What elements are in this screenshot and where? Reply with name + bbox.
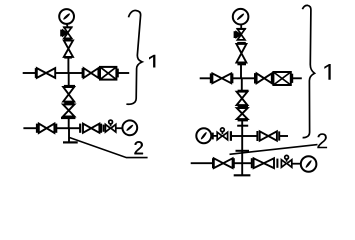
leader line to label 2 (left) — [69, 138, 147, 158]
label 2 (left assembly) — [134, 141, 142, 154]
three-way cock VK3 (below PG3) — [235, 29, 246, 40]
three-way cock VK5 (run 3, handle up) — [281, 155, 291, 167]
shut-off valve V11 (vertical hourglass) — [237, 92, 248, 105]
node: run 1 junction with riser — [68, 72, 82, 74]
shut-off valve V12 (vertical hourglass) — [237, 108, 248, 119]
brace bracket (right assembly, item 1) — [302, 5, 314, 137]
pipe: stub from PG4 to cock VK4 — [211, 133, 217, 140]
tap bar below run 2 junction (item 2, right assembly) — [236, 150, 250, 152]
flange bar right of valve V14 — [233, 158, 235, 168]
shut-off valve V4 (vertical hourglass) — [63, 87, 74, 102]
flange bar right of valve V9 — [231, 73, 233, 83]
flange bar right of valve V15 — [276, 159, 278, 168]
flange bar left of valve V3 — [82, 68, 84, 78]
pipe: run 1 left stub (right assembly) — [200, 77, 210, 79]
instrument box B1 (crossed square) — [100, 67, 116, 80]
node: run 3 junction — [242, 162, 251, 164]
pressure gauge PG1 (left assembly, top) — [59, 9, 74, 28]
pressure gauge PG2 (run 2 right end) — [122, 120, 137, 135]
pipe: riser run 2 to run 3 — [241, 136, 243, 163]
pipe: stub to gauge PG5 — [292, 163, 301, 165]
flange bar left of valve V2 — [35, 68, 37, 78]
pipe: run 1 right stub (right assembly) — [292, 77, 302, 79]
three-way cock VK1 (below PG1) — [61, 27, 72, 38]
brace bracket (left assembly, item 1) — [126, 10, 142, 104]
shut-off valve V6 (run 2 left) — [39, 124, 55, 133]
pipe: run 1 left stub — [23, 72, 36, 74]
pipe: riser down to run 2 (right assembly) — [241, 120, 243, 136]
pipe: run 2 left stub — [23, 127, 36, 129]
shut-off valve V10 (run 1 right) — [257, 73, 272, 83]
flange bar above run 2 junction — [237, 125, 248, 127]
flange bar left of valve V13 — [256, 131, 258, 141]
pipe: run 2 right stub (right assembly) — [279, 135, 288, 137]
node: run 1 junction (right assembly) — [241, 77, 254, 79]
flange bar left of valve V7 — [79, 124, 81, 133]
flange bar above valve V8 — [237, 42, 246, 44]
flange bar below valve V5 — [61, 117, 75, 119]
flange bar above valve V1 — [64, 38, 72, 40]
flange bar below valve V12 — [238, 119, 248, 121]
pipe: run 3 to junction — [234, 162, 242, 164]
three-way cock VK2 (run 2, handle up) — [105, 120, 115, 132]
flange bar below valve V1 — [64, 57, 72, 59]
tap end bar below run 3 — [234, 174, 251, 176]
pressure gauge PG5 (run 3 right end) — [301, 156, 317, 172]
shut-off valve V8 (vertical hourglass) — [236, 44, 246, 63]
flange bar above valve V4 — [64, 85, 75, 87]
flange bar left of valve V10 — [254, 73, 256, 83]
shut-off valve V3 (run 1 right) — [84, 68, 99, 78]
pressure gauge PG4 (run 2 left end) — [196, 128, 211, 143]
pipe: run 2 between V6 and junction — [56, 127, 68, 129]
pipe: run 1 right stub — [118, 72, 129, 74]
flange bar right of box B2 — [291, 74, 293, 83]
pipe: riser run1 to valve V11 — [241, 78, 243, 90]
pipe: riser run1 to valve V4 — [68, 73, 70, 86]
pressure gauge PG3 (right assembly, top) — [233, 9, 249, 29]
flange bar between valves V11 and V12 — [238, 106, 248, 108]
shut-off valve V1 (vertical hourglass) — [64, 41, 73, 57]
three-way cock VK4 (run 2, handle up) — [217, 128, 227, 140]
leader line to label 2 (right) — [230, 145, 318, 155]
flange bar left of valve V6 — [36, 124, 38, 133]
node: run 2 junction with riser — [69, 127, 80, 129]
label 1 (right assembly) — [324, 64, 330, 80]
flange bar above valve V11 — [238, 90, 249, 92]
flange bar right of box B1 — [117, 69, 119, 78]
shut-off valve V13 (run 2 right) — [260, 131, 277, 140]
pipe: riser down to run 2 — [68, 118, 70, 128]
flange bar between valves V4 and V5 — [64, 102, 74, 104]
flange bar right of cock VK4 — [230, 131, 232, 141]
shut-off valve V9 (run 1 left) — [212, 73, 231, 83]
tap end bar (item 2, left assembly) — [63, 141, 78, 143]
pipe: run 1 to junction (right assembly) — [232, 77, 241, 79]
pipe: drain stub below run 3 — [241, 163, 243, 175]
pipe: run 3 left stub — [191, 162, 213, 164]
flange bar right of valve V7 — [100, 124, 102, 133]
node: run 2 junction (right assembly) — [242, 135, 256, 137]
instrument box B2 (crossed square) — [273, 72, 290, 85]
shut-off valve V7 (run 2 right) — [83, 124, 99, 133]
pipe: run 1 between V2 and junction — [55, 72, 68, 74]
label 1 (left assembly) — [149, 55, 155, 68]
flange bar below valve V8 — [237, 63, 246, 65]
shut-off valve V2 (run 1 left) — [37, 68, 55, 78]
flange bar right of valve V6 — [55, 124, 57, 133]
flange bar left of valve V9 — [210, 73, 212, 83]
pipe: riser from V8 down to run 1 — [240, 64, 242, 78]
shut-off valve V14 (run 3 left) — [214, 158, 233, 168]
pipe: stub to gauge PG2 — [116, 127, 122, 129]
shut-off valve V5 (vertical hourglass) — [63, 104, 74, 116]
flange bar second, left of cock VK2 — [103, 125, 105, 132]
pipe: run 2 to junction (right assembly) — [231, 135, 242, 137]
pipe: riser from V1 down to run 1 — [67, 58, 69, 73]
flange bar right of valve V13 — [278, 131, 280, 140]
label 2 (right assembly) — [317, 133, 327, 148]
pipe: drain stub below run 2 junction — [68, 128, 70, 142]
flange bar left of valve V15 — [251, 158, 253, 168]
shut-off valve V15 (run 3 right) — [254, 158, 274, 168]
flange bar left of valve V14 — [212, 158, 214, 168]
